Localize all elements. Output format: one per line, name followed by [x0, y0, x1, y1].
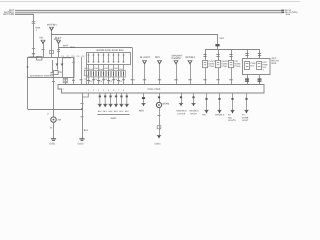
- wire into box x259.5: [259, 50, 261, 59]
- wire ground chain x82: [82, 93, 84, 139]
- wire horizontal y49.5: [205, 49, 260, 51]
- ground G402: [79, 138, 84, 140]
- svg-text:LIGHTS: LIGHTS: [177, 113, 186, 116]
- wire power feed line 3 to main drop: [15, 13, 34, 16]
- connector box with X x65.5: [63, 78, 67, 83]
- svg-text:BLK: BLK: [119, 110, 124, 113]
- svg-text:WHT: WHT: [63, 45, 69, 48]
- svg-text:BLK: BLK: [103, 110, 108, 113]
- svg-text:TO: TO: [242, 114, 245, 117]
- bus connector strip box: [58, 85, 264, 94]
- svg-text:RED/BLK: RED/BLK: [186, 56, 196, 59]
- terminator x232.5: [232, 93, 234, 110]
- component RADIO x218: [218, 50, 220, 61]
- wire long horizontal y34: [52, 34, 218, 36]
- svg-text:BLU/WHT: BLU/WHT: [140, 56, 151, 59]
- svg-text:COND: COND: [208, 65, 215, 68]
- ground cluster bracket: [97, 114, 129, 116]
- svg-text:G404: G404: [155, 142, 162, 145]
- tick on chain x53.5: [52, 81, 55, 83]
- svg-text:GRN/RED: GRN/RED: [176, 109, 187, 112]
- svg-text:15A: 15A: [114, 67, 118, 70]
- tick on main drop lower: [32, 48, 35, 50]
- junction A to horizontal: [51, 33, 52, 34]
- svg-text:ACC: ACC: [272, 57, 277, 60]
- svg-text:GRN/WHT: GRN/WHT: [172, 55, 184, 58]
- wire horizontal y109: [28, 109, 83, 111]
- svg-text:BLK: BLK: [125, 110, 130, 113]
- svg-text:BLU: BLU: [71, 46, 76, 49]
- wire fuse box left edge down x86.5: [86, 65, 88, 85]
- svg-text:RED/BLK: RED/BLK: [189, 109, 199, 112]
- wire into box x247: [247, 50, 249, 59]
- ticks on wire C: [57, 49, 60, 51]
- internal wire x52: [52, 60, 54, 72]
- svg-text:DOME: DOME: [242, 116, 249, 119]
- wire power feed line 1 (top bus): [15, 10, 284, 12]
- svg-text:BLK: BLK: [114, 110, 119, 113]
- connector arrow A x51.5: [50, 27, 54, 30]
- fuse box: [87, 53, 131, 65]
- fuse box output comb wires: [88, 65, 90, 85]
- svg-text:RED: RED: [155, 56, 160, 59]
- dark tip end line 1: [281, 10, 284, 11]
- ground G401: [51, 138, 56, 140]
- svg-text:DIMMER: DIMMER: [172, 57, 182, 60]
- svg-text:LIGHTS: LIGHTS: [228, 119, 236, 122]
- wire below connector B: [43, 44, 45, 57]
- component CIG x231: [231, 50, 233, 61]
- connector ticks on main drop: [32, 21, 36, 23]
- terminator x143.5: [143, 93, 145, 103]
- terminator x246.5: [246, 93, 248, 110]
- svg-text:RLY: RLY: [250, 65, 255, 68]
- svg-text:PWR: PWR: [262, 63, 268, 66]
- wire below connector C: [58, 44, 60, 57]
- svg-text:RELAY: RELAY: [272, 60, 280, 63]
- connector box on wire A: [49, 51, 53, 54]
- relay component 2 in box: [257, 62, 262, 70]
- corner drop right x259.5: [259, 50, 261, 59]
- tick on wire B: [41, 49, 44, 51]
- connector arrow B x43: [41, 40, 45, 43]
- contact dashes x57: [56, 70, 59, 72]
- relay component near box bottom: [54, 71, 59, 75]
- svg-text:PWR: PWR: [250, 62, 256, 65]
- svg-text:ACC: ACC: [262, 61, 267, 64]
- svg-text:COND: COND: [234, 65, 241, 68]
- svg-text:G402: G402: [78, 143, 85, 146]
- arrowhead x62: [61, 64, 64, 67]
- terminator x206.5: [206, 93, 208, 110]
- wire feed drop x132: [132, 48, 134, 85]
- diode component on box top: [37, 57, 43, 60]
- bulb component circle: [51, 117, 56, 122]
- internal wire x62: [62, 57, 64, 77]
- wire out of box x259.5: [259, 74, 261, 85]
- svg-text:BEAM: BEAM: [163, 102, 170, 105]
- terminator x180.5: [181, 93, 183, 103]
- wire feed horizontal y47.5: [59, 47, 133, 49]
- chain x159 with component: [159, 93, 161, 102]
- right relay box: [243, 59, 271, 75]
- wire below bulb: [53, 122, 55, 138]
- svg-text:BLK: BLK: [98, 110, 103, 113]
- svg-text:WHT: WHT: [220, 37, 226, 40]
- svg-text:WHT/GRN: WHT/GRN: [3, 13, 14, 16]
- junction dot x82 y109: [81, 108, 83, 110]
- svg-text:15A: 15A: [109, 68, 113, 71]
- svg-text:INTEGRATED CONTROL: INTEGRATED CONTROL: [30, 74, 55, 77]
- dark tick on feed x217.5: [215, 44, 219, 46]
- top page border line: [0, 1, 300, 3]
- svg-text:BOX: BOX: [272, 62, 277, 65]
- svg-text:RED: RED: [139, 109, 144, 112]
- svg-text:15A: 15A: [119, 68, 123, 71]
- tick chain x82 upper: [80, 103, 83, 105]
- svg-text:C501-C505: C501-C505: [148, 88, 161, 91]
- wire left edge down x27.5: [27, 77, 29, 109]
- corner drop left x205: [205, 50, 207, 61]
- svg-text:UNDER-DASH FUSE BOX: UNDER-DASH FUSE BOX: [96, 49, 124, 52]
- svg-text:LIGHT: LIGHT: [242, 119, 249, 122]
- wire vertical feed x217.5: [217, 34, 219, 50]
- relay component 1 in box: [245, 62, 250, 70]
- svg-text:G401: G401: [111, 117, 118, 120]
- svg-text:BLK: BLK: [109, 110, 114, 113]
- wire out of box x247: [247, 74, 249, 85]
- tick chain x82 lower: [80, 116, 83, 118]
- svg-text:CB: CB: [58, 71, 62, 74]
- component box on x86.5: [84, 70, 89, 76]
- svg-text:IGNITION: IGNITION: [29, 56, 39, 59]
- ground cluster wires: [99, 93, 101, 104]
- fuses row inside fuse box: [88, 53, 90, 63]
- wire power feed line 2 (top bus): [15, 12, 284, 14]
- tick pair on main drop above box: [32, 53, 35, 55]
- wire x81 to bus: [81, 57, 83, 85]
- internal wire x57: [57, 57, 59, 70]
- svg-text:15A: 15A: [99, 68, 103, 71]
- capacitor dashes x52: [51, 72, 54, 74]
- page background: [0, 0, 300, 155]
- wire chain down x53.5: [53, 75, 55, 117]
- svg-text:BLK/Y: BLK/Y: [55, 36, 62, 39]
- svg-text:COND: COND: [221, 65, 228, 68]
- wire x65.5 to bus with connector: [65, 77, 67, 85]
- terminator x219.5: [219, 93, 221, 110]
- wire x73.5 to bus: [73, 58, 75, 85]
- svg-text:BLK: BLK: [84, 129, 89, 132]
- terminator x192.5: [193, 93, 195, 103]
- svg-text:15A: 15A: [104, 67, 108, 70]
- svg-text:fuse: fuse: [286, 13, 291, 16]
- wire main drop x33.5: [33, 14, 35, 57]
- wire below connector A: [51, 31, 53, 57]
- dark tip end line 2: [281, 12, 284, 13]
- svg-text:G401: G401: [49, 143, 56, 146]
- svg-text:M44: M44: [36, 27, 41, 30]
- svg-text:YEL: YEL: [39, 36, 44, 39]
- component CLOCK x205: [203, 53, 206, 55]
- svg-text:WHT/BLU: WHT/BLU: [47, 23, 58, 26]
- connector arrow C x58.5: [57, 40, 61, 43]
- junction dot left edge: [27, 66, 29, 68]
- left control unit box: [28, 58, 75, 78]
- svg-text:DASH: DASH: [190, 113, 197, 116]
- svg-text:15A: 15A: [89, 68, 93, 71]
- notch below bus: [82, 93, 88, 97]
- arrowhead x57: [56, 64, 59, 67]
- svg-text:TO: TO: [228, 114, 231, 117]
- svg-text:RLY: RLY: [262, 66, 267, 69]
- svg-text:GRN/BLK: GRN/BLK: [215, 114, 225, 117]
- svg-text:15A: 15A: [94, 67, 98, 70]
